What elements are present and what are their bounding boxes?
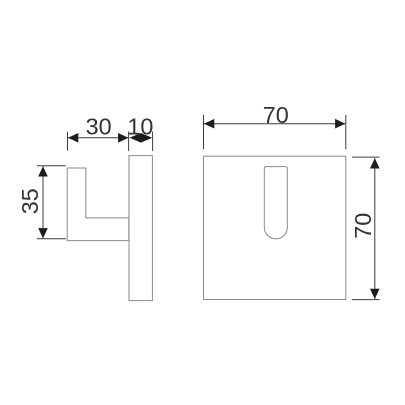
dim 30 arrow right	[118, 133, 128, 143]
dim 30 extension line left	[67, 132, 69, 151]
svg-text:35: 35	[17, 188, 43, 214]
dim 70 right extension line top	[352, 156, 380, 158]
svg-text:30: 30	[86, 114, 112, 140]
dim 35 line	[42, 166, 44, 238]
dim 30 line	[68, 137, 128, 139]
svg-text:70: 70	[350, 213, 376, 239]
dim 70 right arrow up	[370, 158, 380, 168]
svg-text:10: 10	[127, 114, 153, 140]
dim 35 extension line top	[37, 165, 66, 167]
dim 10 extension line right	[152, 132, 154, 152]
dim 70 right extension line bottom	[352, 299, 380, 301]
slot front view	[264, 167, 287, 239]
dim 30 arrow left	[68, 133, 78, 143]
plate side view	[129, 156, 152, 301]
dim 35 arrow up	[38, 166, 48, 176]
svg-text:70: 70	[263, 102, 289, 128]
dim 70 top line	[204, 123, 345, 125]
dim 35 arrow down	[38, 228, 48, 238]
front plate square	[204, 156, 346, 299]
dim 30/10 shared extension line	[128, 132, 130, 152]
dim 70 right arrow down	[370, 289, 380, 299]
dim 70 top extension line left	[203, 115, 205, 149]
dim 10 double arrow diamond	[130, 133, 153, 143]
hook profile	[67, 168, 129, 241]
dim 70 top extension line right	[345, 115, 347, 149]
dim 70 right line	[374, 158, 376, 299]
dim 70 top arrow right	[335, 119, 345, 129]
dim 70 top arrow left	[204, 119, 214, 129]
dim 35 extension line bottom	[37, 238, 66, 240]
